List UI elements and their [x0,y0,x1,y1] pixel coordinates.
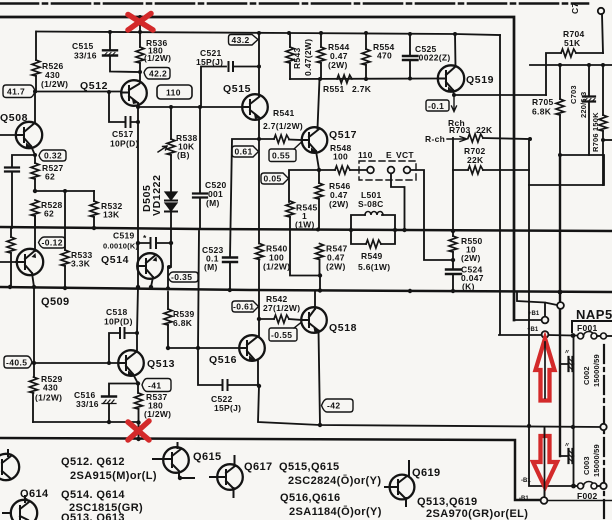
wire x=34 Q509 column [33,287,35,363]
svg-text:430: 430 [43,383,58,393]
node dots L501 [349,228,397,232]
fuse F002 [574,485,578,487]
svg-text:15P(J): 15P(J) [214,403,241,413]
wire x=573 column [573,364,575,486]
resistor R531 (left column, label off-page) [10,228,12,237]
wire x=138 C519 to Q514/bus [137,243,139,287]
svg-text:.0022(Z): .0022(Z) [416,53,451,63]
chain border top [0,2,588,5]
svg-text:〃: 〃 [564,350,570,356]
svg-text:Q518: Q518 [329,322,357,334]
svg-text:-B1: -B1 [519,496,529,502]
svg-text:NAP5: NAP5 [576,307,612,322]
capacitor C518 [109,333,137,363]
wire x=259 column (Q515 collector / emitter chain) [258,33,259,386]
svg-text:0.32: 0.32 [44,151,62,161]
wire Q512 collector column x=140 [139,17,141,83]
svg-text:C517: C517 [112,129,134,139]
transistor Q508 [16,122,42,148]
svg-text:Q517: Q517 [329,129,357,141]
svg-text:C002: C002 [582,366,591,385]
wire X2 node down to -B rail [138,423,140,440]
red X mark bottom (deleted connection) [128,421,149,440]
resistor R541 [259,138,274,140]
flag 0.32 [39,150,66,161]
svg-text:Q509: Q509 [41,296,70,308]
svg-text:Q614: Q614 [20,488,49,500]
svg-text:2SC2824(Ō)or(Y): 2SC2824(Ō)or(Y) [288,475,381,487]
wire Q510 collector/emitter column [32,216,35,287]
flag 43.2 [229,35,259,46]
node dot Q508 emitter [33,153,37,157]
wire base feed y=79 [290,78,438,81]
svg-text:Q515: Q515 [223,83,251,95]
svg-text:15000/59: 15000/59 [592,354,601,387]
node dot R532 at bus [92,226,96,230]
flag 0.55 with tail [269,149,296,162]
wire x=198 column down to C522 [198,231,222,385]
net label +B1 upper [528,311,540,317]
svg-text:(K): (K) [462,282,475,292]
flag 110 [157,85,192,99]
node dot y348 x198 [196,346,200,350]
svg-text:(1/2W): (1/2W) [41,79,68,89]
svg-text:C703: C703 [569,85,578,104]
wire Q508 emitter to node [31,146,35,155]
wire -B1 drop visible inside down arrow [544,430,546,496]
svg-text:470: 470 [377,51,392,61]
node dot R539 bottom [166,346,170,350]
wire -B1 drop to terminal [544,427,546,497]
svg-text:6.8K: 6.8K [532,107,552,117]
svg-text:〃: 〃 [564,443,570,449]
svg-text:(2W): (2W) [329,199,349,209]
node dot E wire at bus [402,228,406,232]
svg-text:Q513. Q613: Q513. Q613 [61,512,125,520]
resistor R527 [34,155,36,163]
svg-text:10P(D): 10P(D) [110,139,139,149]
flag -0.12 [39,237,66,248]
wire -B1 terminal right [548,500,612,502]
svg-text:110: 110 [166,88,181,98]
node dot R706 bottom stub [601,138,605,142]
svg-text:(1/2W): (1/2W) [35,393,62,403]
resistor R526 [35,32,37,61]
node dots C519 [136,241,173,245]
wire Q519 collector up [454,34,457,67]
wire y=191 [35,190,94,192]
svg-text:R551: R551 [323,84,345,94]
svg-text:13K: 13K [103,210,120,220]
svg-text:0.05: 0.05 [264,174,282,184]
node dot R703 right [528,137,532,141]
node dots lower bus mid [408,289,563,295]
node dot Q515 emitter / R541 [257,137,261,141]
transistor Q513 [118,350,144,376]
wire y=65 decoupling rail [530,64,612,66]
label Q509 [41,296,70,308]
svg-text:C519: C519 [113,231,135,241]
svg-text:41.7: 41.7 [7,87,25,97]
node dots base feed [318,77,412,82]
resistor R702 [453,169,468,171]
transistor Q514 [137,253,163,279]
capacitor C520 [199,107,201,193]
transistor Q516 [239,335,265,361]
capacitor C522 [228,384,259,386]
svg-text:51K: 51K [564,38,581,48]
flag -40.5 [4,356,32,368]
svg-text:220/6.3: 220/6.3 [579,92,588,118]
svg-text:S-08C: S-08C [358,199,384,209]
net label -B1 upper [521,478,531,484]
capacitor C517 [109,92,138,122]
resistor R543 (rotated labels) [289,33,291,47]
svg-text:C518: C518 [106,307,128,317]
red X mark top (deleted connection) [128,14,153,31]
net label -B1 lower [519,496,529,502]
wire y=422 emitter network [33,421,139,423]
svg-text:R543: R543 [292,47,302,69]
node dot junction top rail / Q512 collector line [138,15,142,19]
red arrow down (-B1 pointer) [533,436,557,488]
svg-text:-0.12: -0.12 [42,238,63,248]
transistor Q517 [302,127,328,153]
flag -0.55 with tail [269,328,297,341]
-B rail (bottom) with step to -B1 terminal [0,438,540,500]
node dot F002 left [571,484,576,489]
wire Q519 emitter rail y=95 [453,90,546,95]
switch terminals [367,167,374,174]
resistor R545 [286,201,294,217]
wire Q518 emitter down [319,331,321,426]
label NAP5 [576,307,612,322]
transistor Q518 [301,307,327,333]
svg-text:+B1: +B1 [527,327,539,333]
lower supply bus [0,287,612,292]
legend transistor package B (bottom left) [11,500,37,520]
wire pin1 jog to pin2 [517,292,557,317]
wire C703/R705 bottoms rail y=155 then staircase down [529,155,604,185]
svg-text:15P(J): 15P(J) [196,57,223,67]
svg-text:VD1222: VD1222 [151,174,163,216]
svg-text:2SA915(M)or(L): 2SA915(M)or(L) [70,470,157,482]
resistor R546 [318,172,320,183]
capacitor C524 [452,260,454,291]
svg-text:Q516: Q516 [209,354,237,366]
svg-text:R703: R703 [449,125,471,135]
node dot rail y155 [558,153,562,157]
resistor R537 [137,384,139,394]
capacitor C525 [409,34,411,79]
legend transistor Q615 [163,447,189,473]
wire Q516 emitter down and across to -B1 [258,386,602,427]
+B supply rail (top) with corner down to NAP pin [0,17,514,320]
svg-text:5.6(1W): 5.6(1W) [358,262,390,272]
svg-text:3.3K: 3.3K [71,259,91,269]
svg-text:-0.1: -0.1 [428,101,444,111]
svg-text:-0.55: -0.55 [271,330,292,340]
svg-text:Q615: Q615 [193,451,222,463]
resistor R533 [61,250,69,266]
switch S501 dashed box [359,161,416,180]
svg-text:6.8K: 6.8K [173,318,193,328]
svg-text:*: * [143,233,147,243]
capacitor C523 [230,139,259,290]
svg-text:100: 100 [333,152,348,162]
node dot C518 right [135,331,139,335]
wire NAP +B column x=560 [559,155,561,456]
transistor Q515 [242,94,268,120]
svg-text:-40.5: -40.5 [6,358,27,368]
inductor L501 / resistor R549 parallel loop [351,215,395,244]
wire switch E terminal down to bus [391,174,405,231]
svg-text:33/16: 33/16 [76,399,99,409]
svg-text:2SA1184(Ō)or(Y): 2SA1184(Ō)or(Y) [289,506,382,518]
fuse F001 [578,333,584,339]
svg-text:(2W): (2W) [461,253,481,263]
node dot Q514 collector node [167,265,171,269]
flag -0.61 [232,301,259,312]
legend transistor Q619 [390,475,415,500]
svg-text:(2W): (2W) [326,262,346,272]
node dot D505 line at lower bus [166,286,170,290]
svg-text:F001: F001 [577,323,598,333]
svg-text:0.0010(K): 0.0010(K) [103,242,138,251]
wire x=499 feed to pin3 [499,334,542,336]
legend text group 6 [417,496,528,520]
flag -0.1 with tail [426,100,449,111]
node dot at -B rail [136,437,140,441]
wire feedback column x=529 [528,139,530,426]
svg-text:R706 150K: R706 150K [591,112,600,152]
wire Q512 emitter to node [137,103,139,107]
capacitor C519 [138,242,171,244]
svg-text:-0.61: -0.61 [233,302,254,312]
svg-text:27(1/2W): 27(1/2W) [263,303,300,313]
svg-text:Q617: Q617 [244,461,273,473]
svg-text:2.7(1/2W): 2.7(1/2W) [263,121,303,131]
svg-text:-B1: -B1 [521,478,531,484]
resistor R704 [561,49,576,57]
flag 0.61 [232,146,259,157]
node dot Q516 collector node / R542 [257,317,261,321]
svg-text:-41: -41 [148,381,162,391]
wire Q517 collector up to base feed node [318,79,320,129]
NAP pin circle +B1 top [557,302,564,309]
svg-text:Q514: Q514 [101,254,129,266]
flag 41.7 [3,85,35,98]
svg-text:(1/2W): (1/2W) [144,53,171,63]
node dot Q512 emitter [136,105,140,109]
svg-text:Q519: Q519 [466,74,494,86]
NAP pin circle B1 third [542,331,549,338]
wire up to R704 [546,53,561,95]
wire R533 column x=65 [64,191,66,250]
node dot C521 right [257,65,261,69]
svg-text:15000/59: 15000/59 [592,444,601,477]
svg-text:R541: R541 [273,108,295,118]
capacitor C003 (rotated labels) [560,455,574,457]
svg-text:110: 110 [358,150,373,160]
svg-text:62: 62 [44,209,54,219]
wire Q513 emitter node [109,374,138,396]
net label +B1 lower [527,327,539,333]
node dots lower bus left [8,285,153,290]
net label C7 (rotated, top right) [570,3,580,14]
resistor R551 [337,75,352,83]
main output bus (upper) [0,227,612,231]
svg-text:42.2: 42.2 [149,69,167,79]
wire pin3 to F001 [549,334,578,337]
wire x=138 down to C519 [137,107,139,243]
node dot C517 right [136,120,140,124]
svg-text:22K: 22K [467,155,484,165]
svg-text:C7: C7 [570,3,580,14]
node dots y422 [107,420,141,425]
node dot R550 bottom / VCT [451,258,455,262]
wire Q510 base from left [0,261,16,263]
legend text group 2 [61,489,143,514]
node dot Q517 emitter [317,168,321,172]
resistor R544 [320,33,322,47]
wire switch VCT terminal to R550/C524 node [411,170,453,260]
node dots on bus at R545/R546 [316,228,320,232]
terminal circle -B1 [541,497,548,504]
svg-text:(2W): (2W) [328,60,348,70]
wire Q508 collector [34,92,36,123]
svg-text:R-ch: R-ch [425,134,445,144]
node dot Q516 emitter / C522 [257,384,261,388]
svg-text:Q512: Q512 [80,80,108,92]
wire Q513 base rail y=363 [34,362,119,364]
flag 42.2 [144,68,170,80]
resistor R532 [93,191,95,201]
svg-text:-42: -42 [327,401,341,411]
svg-text:C515: C515 [72,41,94,51]
node dot x453 at bus [451,229,455,233]
svg-text:R549: R549 [361,251,383,261]
node dots x529 [527,424,531,428]
svg-text:Q512. Q612: Q512. Q612 [61,456,125,468]
flag 0.05 [261,173,289,184]
resistor R539 [167,292,169,309]
node dot R527 bottom [33,189,37,193]
svg-text:10P(D): 10P(D) [104,317,133,327]
svg-text:62: 62 [45,172,55,182]
legend text group 4 [279,461,381,487]
flag -42 [322,399,354,412]
node dot C518 left at base rail [107,361,111,365]
svg-text:C003: C003 [582,456,591,475]
node dots -B1 wire x529 x573 [571,425,575,429]
svg-text:+B1: +B1 [528,311,540,317]
node dot Q519 emitter [452,93,456,97]
svg-text:43.2: 43.2 [232,35,250,45]
capacitor C512 (left column) [12,155,35,228]
wire output column x=453 (R-ch) [452,138,454,236]
legend label Q614 [20,488,49,500]
net label R-ch with arrow [425,134,445,144]
node dot C524 at lower bus [451,289,455,293]
legend transistor package A (left edge) [0,454,19,480]
legend transistor Q617 [217,464,243,490]
resistor R703 [468,134,483,142]
legend text group 1 [61,456,157,482]
resistor R538 (variable) [170,107,172,139]
svg-text:-0.35: -0.35 [171,272,192,282]
wire Q514 emitter to bus [151,277,153,287]
wire Q513 collector column [137,287,138,351]
svg-text:2.7K: 2.7K [352,84,372,94]
resistor R547 [316,244,324,260]
capacitor C002 (rotated labels) [560,336,574,365]
svg-text:0.61: 0.61 [235,147,253,157]
wire top rail corner to NAP pin 2 [514,319,541,321]
svg-text:(B): (B) [177,150,190,160]
red arrow up (+B1 pointer) [536,339,555,401]
svg-text:0.55: 0.55 [272,151,290,161]
node dots y=65 [558,63,605,67]
node dot C523 at lower bus [228,288,232,292]
svg-text:(M): (M) [206,198,220,208]
flag -41 [142,379,171,392]
svg-text:Q516,Q616: Q516,Q616 [280,492,340,504]
svg-text:0.47(2W): 0.47(2W) [303,39,313,76]
capacitor C703 (rotated labels) [588,65,590,155]
node dot F001 left [571,333,576,338]
legend text group 3 [61,512,125,520]
transistor Q512 [121,80,147,106]
svg-text:(1/2W): (1/2W) [144,409,171,419]
NAP unit outline [572,321,612,332]
svg-text:F002: F002 [577,491,598,501]
node dot -40.5 node [32,361,36,365]
wire Q517 emitter node rails [289,151,335,202]
svg-text:Q619: Q619 [412,467,441,479]
resistor R548 [335,166,350,174]
svg-text:Q508: Q508 [0,112,28,124]
terminal circle top right [598,8,604,14]
diode D505 (dual) [165,192,177,200]
node dot Q518 emitter at -B1 wire [318,423,322,427]
svg-text:(M): (M) [204,262,218,272]
node dots base rail [33,90,111,95]
NAP pin circle +B1 lower [542,317,549,324]
node dots on emitter rail [169,105,202,109]
wire feed corner down right side [499,35,501,335]
wire emitter rail y=107 to Q515 base [138,106,243,108]
svg-text:Q515,Q615: Q515,Q615 [279,461,339,473]
svg-text:33/16: 33/16 [74,51,97,61]
resistor R540 [256,244,264,260]
wire leader inside up arrow [544,342,546,398]
resistor R529 [33,363,35,377]
wire x=529 down to F002 rail [529,426,574,486]
legend text group 5 [280,492,382,518]
resistor R706 (rotated label) [602,65,604,115]
svg-text:Q513: Q513 [147,358,175,370]
svg-text:(1W): (1W) [295,220,315,230]
node dot y191/R533 [63,189,67,193]
wire Q508 base from left [0,134,16,136]
svg-text:Q514. Q614: Q514. Q614 [61,489,125,501]
capacitor C516 [102,395,116,397]
wire Q512 base rail y=92 [35,91,121,93]
transistor Q510 [17,249,43,275]
svg-text:(1/2W): (1/2W) [263,262,290,272]
resistor R554 [365,33,367,49]
